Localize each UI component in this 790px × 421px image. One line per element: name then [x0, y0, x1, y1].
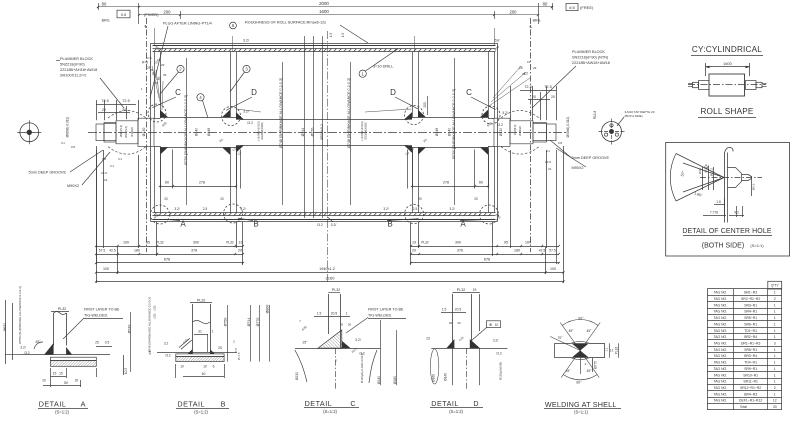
svg-text:PL32: PL32: [457, 288, 465, 292]
svg-text:PL32: PL32: [226, 241, 234, 245]
svg-text:7.5: 7.5: [234, 348, 238, 352]
svg-text:1.1: 1.1: [605, 347, 609, 351]
svg-text:(S=1:2): (S=1:2): [194, 410, 208, 415]
svg-text:Ø140: Ø140: [195, 128, 199, 136]
svg-text:15.7.5: 15.7.5: [237, 352, 241, 360]
svg-text:Ø160: Ø160: [432, 374, 436, 382]
svg-text:/3.2: /3.2: [496, 352, 502, 356]
svg-text:3.2/: 3.2/: [240, 207, 245, 211]
svg-text:TD1~R1: TD1~R1: [744, 329, 757, 333]
svg-text:42.5: 42.5: [539, 249, 546, 253]
svg-text:80: 80: [102, 2, 107, 7]
svg-text:℄: ℄: [529, 24, 533, 29]
svg-text:Ø500±0.2: Ø500±0.2: [320, 124, 324, 140]
svg-text:1: 1: [774, 380, 776, 384]
svg-text:Ø750: Ø750: [223, 318, 227, 327]
svg-text:50: 50: [64, 381, 68, 385]
svg-text:DR1~R1~R3: DR1~R1~R3: [741, 341, 761, 345]
svg-text:Ø90x(5.4): Ø90x(5.4): [119, 125, 123, 137]
svg-text:20: 20: [412, 249, 416, 253]
svg-text:SR2~R1~R2: SR2~R1~R2: [741, 297, 760, 301]
svg-text:21: 21: [104, 178, 108, 182]
svg-text:1.5: 1.5: [329, 33, 333, 38]
svg-text:DETAIL: DETAIL: [431, 399, 459, 408]
svg-text:Ø149: Ø149: [435, 128, 439, 136]
svg-text:TAG NO.: TAG NO.: [713, 373, 727, 377]
svg-text:℄: ℄: [144, 24, 148, 29]
svg-text:SR3~R1: SR3~R1: [744, 303, 757, 307]
svg-text:DETAIL: DETAIL: [305, 399, 333, 408]
svg-text:Ø748 [SHRINKAGE ALLOWANCE 0.2-: Ø748 [SHRINKAGE ALLOWANCE 0.2-0.3]: [347, 78, 351, 148]
svg-text:1: 1: [774, 322, 776, 326]
svg-text:C1: C1: [61, 141, 65, 145]
svg-text:1.5: 1.5: [341, 33, 345, 38]
svg-text:ROUGHNESS OF ROLL SURFACE:Rmax: ROUGHNESS OF ROLL SURFACE:Rmax6-12s: [245, 21, 326, 25]
svg-text:SR4~R1: SR4~R1: [744, 310, 757, 314]
svg-text:(BOTH SIDE): (BOTH SIDE): [702, 243, 744, 250]
svg-text:23: 23: [426, 337, 430, 341]
svg-text:20: 20: [42, 379, 46, 383]
svg-text:25: 25: [218, 346, 222, 350]
svg-text:3.2/: 3.2/: [331, 223, 337, 227]
svg-text:95: 95: [504, 241, 508, 245]
svg-text:BR1~R3: BR1~R3: [744, 291, 757, 295]
svg-text:(S=1:2): (S=1:2): [449, 409, 463, 414]
svg-text:SR10~R1: SR10~R1: [743, 373, 758, 377]
svg-text:SR100X11.2/≈2: SR100X11.2/≈2: [60, 74, 87, 78]
svg-text:Ø100x6: Ø100x6: [130, 127, 134, 137]
svg-text:29: 29: [533, 66, 537, 70]
svg-text:C1: C1: [118, 157, 122, 161]
svg-text:0.8: 0.8: [558, 141, 562, 145]
svg-text:25°: 25°: [303, 341, 309, 345]
svg-text:200: 200: [423, 102, 427, 108]
svg-text:ØSO(5.4): ØSO(5.4): [124, 126, 128, 138]
svg-text:1: 1: [346, 311, 348, 315]
svg-text:Ø750 [SHRINKAGE ALLOWANCE 0.2-: Ø750 [SHRINKAGE ALLOWANCE 0.2-0.3]: [184, 95, 188, 165]
svg-text:SN2218(d=90) (NTN): SN2218(d=90) (NTN): [572, 56, 609, 60]
svg-text:Ø744: Ø744: [247, 318, 251, 327]
svg-text:20: 20: [474, 197, 478, 201]
svg-text:1: 1: [774, 329, 776, 333]
svg-text:3.2/: 3.2/: [243, 39, 249, 43]
svg-text:12: 12: [610, 349, 614, 353]
svg-text:10: 10: [527, 60, 531, 64]
svg-text:Ø12.2: Ø12.2: [710, 168, 714, 177]
svg-text:(S=1:1): (S=1:1): [574, 410, 588, 415]
svg-text:TAG NO.: TAG NO.: [713, 335, 727, 339]
svg-text:Ø140: Ø140: [444, 373, 448, 381]
svg-text:20.5: 20.5: [455, 308, 462, 312]
svg-text:678: 678: [484, 258, 490, 262]
svg-text:SR5~R1: SR5~R1: [744, 316, 757, 320]
svg-text:20: 20: [457, 321, 461, 325]
svg-text:21: 21: [548, 167, 552, 171]
svg-text:25: 25: [519, 66, 523, 70]
svg-text:2: 2: [774, 297, 776, 301]
svg-text:(S=1:2): (S=1:2): [55, 410, 69, 415]
svg-text:1.8: 1.8: [716, 200, 721, 204]
svg-text:TD4~R1: TD4~R1: [744, 361, 757, 365]
svg-text:TIG-WELDED.: TIG-WELDED.: [368, 314, 392, 318]
svg-text:Ø630: Ø630: [3, 323, 7, 331]
svg-text:1600: 1600: [723, 62, 731, 66]
svg-text:3.2/: 3.2/: [502, 111, 508, 115]
svg-text:BR2~R4: BR2~R4: [744, 335, 757, 339]
svg-text:72.5: 72.5: [544, 85, 551, 89]
svg-text:Ø750 (SHRINKAGE ALLOWANCE 0.2-: Ø750 (SHRINKAGE ALLOWANCE 0.2-0.3]: [18, 286, 22, 343]
svg-text:2.5: 2.5: [203, 207, 208, 211]
svg-text:60: 60: [165, 181, 169, 185]
svg-text:5mm DEEP GROOVE: 5mm DEEP GROOVE: [29, 171, 67, 175]
svg-text:10: 10: [157, 58, 161, 62]
svg-text:90°: 90°: [578, 317, 584, 321]
svg-text:0.5: 0.5: [121, 12, 127, 17]
svg-text:5mm DEEP GROOVE: 5mm DEEP GROOVE: [572, 156, 610, 160]
svg-text:WELDING AT SHELL: WELDING AT SHELL: [545, 400, 617, 409]
svg-text:Ø18: Ø18: [698, 168, 702, 174]
svg-text:DETAIL: DETAIL: [39, 400, 67, 409]
svg-text:200: 200: [510, 10, 518, 15]
svg-text:20.5: 20.5: [331, 311, 338, 315]
svg-text:95: 95: [146, 241, 150, 245]
svg-text:20: 20: [220, 197, 224, 201]
svg-text:BRG.: BRG.: [102, 19, 111, 23]
svg-text:TAG NO.: TAG NO.: [713, 322, 727, 326]
svg-text:80: 80: [543, 2, 548, 7]
svg-text:100: 100: [550, 267, 556, 271]
svg-text:3.2/: 3.2/: [20, 346, 26, 350]
svg-text:(S=1:1): (S=1:1): [750, 243, 764, 248]
svg-text:/3.2: /3.2: [247, 121, 253, 125]
svg-text:70°: 70°: [558, 336, 564, 340]
svg-text:45°: 45°: [569, 329, 575, 333]
svg-text:Ø149: Ø149: [207, 128, 211, 136]
svg-text:15: 15: [59, 372, 63, 376]
svg-text:TAG NO.: TAG NO.: [713, 348, 727, 352]
svg-text:300: 300: [455, 241, 461, 245]
svg-text:3.2/: 3.2/: [383, 207, 388, 211]
svg-text:45°: 45°: [587, 329, 593, 333]
svg-text:Ø770: Ø770: [256, 318, 260, 327]
svg-text:72.5: 72.5: [122, 99, 129, 103]
svg-text:#.5: #.5: [569, 5, 575, 10]
svg-text:72.5: 72.5: [524, 85, 531, 89]
svg-text:Ø135µ6(±038): Ø135µ6(±038): [499, 362, 503, 380]
svg-text:C: C: [350, 399, 355, 408]
svg-text:10.8(5.4): 10.8(5.4): [513, 125, 517, 136]
svg-text:PL32: PL32: [421, 241, 429, 245]
svg-text:ROLL SHAPE: ROLL SHAPE: [700, 107, 753, 116]
svg-text:19: 19: [412, 241, 416, 245]
svg-text:20: 20: [164, 197, 168, 201]
svg-text:SR6~R1: SR6~R1: [744, 322, 757, 326]
svg-text:/3.2: /3.2: [317, 223, 323, 227]
svg-text:1: 1: [774, 310, 776, 314]
svg-text:3.1: 3.1: [110, 164, 114, 168]
svg-text:C: C: [175, 88, 181, 97]
svg-text:Total: Total: [740, 405, 747, 409]
svg-text:3=10 DRILL: 3=10 DRILL: [373, 65, 393, 69]
svg-text:0.8: 0.8: [102, 157, 106, 161]
svg-text:SR8~R1: SR8~R1: [744, 348, 757, 352]
svg-text:20: 20: [75, 379, 79, 383]
svg-text:BR3~R4: BR3~R4: [744, 354, 757, 358]
svg-text:20: 20: [150, 68, 154, 72]
svg-text:PL16: PL16: [615, 347, 619, 355]
svg-text:72.5: 72.5: [101, 99, 108, 103]
svg-text:0.8: 0.8: [71, 145, 75, 149]
svg-text:FIRST LAYER TO BE: FIRST LAYER TO BE: [84, 308, 120, 312]
svg-text:300: 300: [193, 241, 199, 245]
svg-text:Ø140: Ø140: [377, 376, 381, 384]
svg-text:PLUMMER BLOCK: PLUMMER BLOCK: [572, 50, 605, 54]
svg-text:1: 1: [774, 373, 776, 377]
svg-text:19: 19: [473, 288, 477, 292]
svg-text:25: 25: [95, 341, 99, 345]
svg-text:TAG NO.: TAG NO.: [713, 399, 727, 403]
svg-text:20: 20: [449, 321, 453, 325]
svg-text:D: D: [473, 399, 478, 408]
svg-text:PL32: PL32: [332, 288, 340, 292]
svg-text:DETAIL: DETAIL: [177, 400, 205, 409]
svg-text:180: 180: [134, 249, 140, 253]
svg-text:1: 1: [774, 392, 776, 396]
svg-text:1.5: 1.5: [442, 308, 447, 312]
svg-text:100: 100: [525, 241, 531, 245]
svg-text:1940±1.2: 1940±1.2: [319, 267, 335, 271]
svg-text:⊕: ⊕: [489, 323, 492, 327]
svg-text:42.5: 42.5: [109, 249, 116, 253]
svg-text:20: 20: [348, 323, 352, 327]
svg-text:TAG NO.: TAG NO.: [713, 380, 727, 384]
svg-text:10: 10: [203, 365, 207, 369]
svg-text:35: 35: [522, 72, 526, 76]
svg-text:22218B+AH18+AW18: 22218B+AH18+AW18: [60, 68, 97, 72]
svg-text:3.2/: 3.2/: [174, 207, 179, 211]
svg-text:1: 1: [212, 330, 214, 334]
svg-text:3.2/: 3.2/: [243, 110, 249, 114]
svg-text:35: 35: [163, 73, 167, 77]
svg-text:60: 60: [479, 181, 483, 185]
svg-text:Ø748 (SHRINKAGE ALLOWANCE 0.2-: Ø748 (SHRINKAGE ALLOWANCE 0.2-0.3]: [148, 297, 152, 352]
svg-text:TAG NO.: TAG NO.: [713, 341, 727, 345]
svg-text:20: 20: [551, 95, 555, 99]
svg-text:2: 2: [585, 362, 587, 366]
svg-text:/3.2: /3.2: [165, 354, 171, 358]
svg-text:180: 180: [514, 249, 520, 253]
svg-text:R12.8: R12.8: [593, 111, 597, 120]
svg-text:100: 100: [103, 267, 109, 271]
svg-text:3.2: 3.2: [164, 342, 169, 346]
svg-text:TAG NO.: TAG NO.: [713, 386, 727, 390]
svg-text:1: 1: [774, 361, 776, 365]
svg-text:TAG NO.: TAG NO.: [713, 329, 727, 333]
svg-text:Ø140: Ø140: [448, 128, 452, 136]
svg-text:PL32: PL32: [197, 298, 205, 302]
svg-text:22218B+AW18+AW18: 22218B+AW18+AW18: [572, 61, 610, 65]
svg-text:Ø180: Ø180: [393, 376, 397, 384]
svg-text:2: 2: [233, 340, 235, 344]
svg-text:1: 1: [774, 303, 776, 307]
svg-text:A: A: [81, 400, 86, 409]
svg-text:Ø90h6(-0.012): Ø90h6(-0.012): [566, 117, 570, 138]
svg-text:BR4~R3: BR4~R3: [744, 392, 757, 396]
svg-text:12: 12: [773, 399, 777, 403]
svg-text:2000: 2000: [319, 1, 329, 6]
svg-text:278: 278: [199, 181, 205, 185]
svg-text:2: 2: [335, 359, 337, 363]
svg-text:45°: 45°: [587, 369, 593, 373]
svg-text:45°: 45°: [566, 369, 572, 373]
svg-text:Ø770: Ø770: [311, 128, 315, 137]
svg-text:Ø6.3: Ø6.3: [752, 183, 756, 190]
svg-text:63/: 63/: [495, 39, 500, 43]
svg-text:Ø130: Ø130: [142, 128, 146, 137]
svg-text:BRG.: BRG.: [533, 19, 542, 23]
svg-text:Ø135µ6[±038]: Ø135µ6[±038]: [260, 122, 264, 139]
svg-text:(FREE): (FREE): [580, 5, 594, 10]
svg-text:(S=1:2): (S=1:2): [323, 409, 337, 414]
svg-text:20: 20: [122, 108, 126, 112]
svg-text:1: 1: [774, 316, 776, 320]
svg-text:7.776: 7.776: [710, 211, 718, 215]
svg-text:CY:CYLINDRICAL: CY:CYLINDRICAL: [692, 45, 762, 54]
svg-text:SR11~R1: SR11~R1: [743, 380, 758, 384]
svg-text:DEF1~R1~R12: DEF1~R1~R12: [739, 399, 762, 403]
svg-text:24.5: 24.5: [101, 171, 107, 175]
svg-text:40: 40: [202, 372, 206, 376]
svg-text:TIG-WELDED.: TIG-WELDED.: [84, 314, 108, 318]
svg-text:10.5: 10.5: [124, 368, 128, 374]
svg-text:Ø750 [SHRINKAGE ALLOWANCE 0.2-: Ø750 [SHRINKAGE ALLOWANCE 0.2-0.3]: [452, 89, 456, 159]
svg-text:TAG NO.: TAG NO.: [713, 310, 727, 314]
svg-text:SR12~R1~R2: SR12~R1~R2: [740, 386, 761, 390]
svg-text:A: A: [460, 220, 466, 229]
svg-text:SR9~R1: SR9~R1: [744, 367, 757, 371]
svg-text:60°: 60°: [576, 381, 582, 385]
svg-text:1: 1: [774, 348, 776, 352]
svg-text:A: A: [180, 220, 186, 229]
svg-text:1: 1: [774, 367, 776, 371]
svg-text:(BOTH SIDE): (BOTH SIDE): [625, 114, 643, 118]
svg-text:0.5: 0.5: [105, 341, 110, 345]
svg-text:(+0.040/+0.013): (+0.040/+0.013): [360, 121, 364, 140]
svg-text:2.5: 2.5: [413, 207, 418, 211]
svg-text:6: 6: [213, 365, 215, 369]
svg-text:3.2/: 3.2/: [493, 339, 499, 343]
svg-text:/3.2: /3.2: [497, 123, 503, 127]
svg-text:278: 278: [443, 181, 449, 185]
svg-text:20: 20: [102, 108, 106, 112]
svg-text:57.5: 57.5: [549, 249, 556, 253]
svg-text:2: 2: [774, 386, 776, 390]
svg-text:19: 19: [239, 241, 243, 245]
svg-text:B: B: [221, 400, 226, 409]
svg-text:C: C: [466, 88, 472, 97]
svg-text:Ø100x6: Ø100x6: [518, 126, 522, 136]
svg-text:100: 100: [123, 241, 129, 245]
svg-text:B: B: [253, 220, 258, 229]
svg-text:200: 200: [164, 10, 172, 15]
svg-text:20: 20: [238, 249, 242, 253]
svg-text:376: 376: [457, 249, 463, 253]
svg-text:TAG NO.: TAG NO.: [713, 354, 727, 358]
svg-text:33: 33: [773, 405, 777, 409]
svg-text:(35): (35): [153, 313, 157, 318]
svg-text:FIRST LAYER TO BE: FIRST LAYER TO BE: [368, 308, 404, 312]
svg-text:DETAIL OF CENTER HOLE: DETAIL OF CENTER HOLE: [682, 228, 771, 235]
svg-text:Ø800: Ø800: [266, 305, 270, 314]
svg-text:20: 20: [418, 197, 422, 201]
svg-text:TAG NO.: TAG NO.: [713, 392, 727, 396]
svg-text:10: 10: [495, 323, 499, 327]
svg-text:TAG NO.: TAG NO.: [713, 316, 727, 320]
svg-text:678: 678: [164, 258, 170, 262]
svg-text:3.2/: 3.2/: [355, 338, 361, 342]
svg-text:R=8: R=8: [142, 61, 148, 65]
svg-text:15: 15: [53, 372, 57, 376]
svg-text:Ø130: Ø130: [499, 128, 503, 136]
svg-text:B: B: [387, 220, 392, 229]
svg-text:1.5: 1.5: [317, 311, 322, 315]
svg-text:Ø130: Ø130: [295, 372, 299, 380]
svg-text:57.5: 57.5: [99, 249, 106, 253]
svg-text:24.5: 24.5: [545, 160, 551, 164]
svg-text:C1: C1: [546, 149, 550, 153]
svg-text:5NZ218(d=90): 5NZ218(d=90): [60, 63, 85, 67]
svg-text:TAG NO.: TAG NO.: [713, 361, 727, 365]
svg-text:0.5: 0.5: [148, 350, 152, 355]
svg-text:Ø80h6(-0.019): Ø80h6(-0.019): [65, 117, 69, 138]
svg-text:31: 31: [198, 330, 202, 334]
svg-text:TAG NO.: TAG NO.: [713, 291, 727, 295]
svg-text:(15): (15): [153, 305, 157, 310]
svg-text:1: 1: [774, 354, 776, 358]
svg-text:D: D: [251, 88, 257, 97]
svg-text:TAG NO.: TAG NO.: [713, 367, 727, 371]
svg-text:25: 25: [155, 81, 159, 85]
svg-text:Ø775: Ø775: [594, 361, 598, 369]
svg-text:10: 10: [180, 365, 184, 369]
svg-text:Ø749: Ø749: [127, 325, 131, 334]
svg-text:PLUG AFTER LINING-PT1/4: PLUG AFTER LINING-PT1/4: [163, 22, 212, 26]
svg-text:20: 20: [340, 323, 344, 327]
svg-text:(+0.040/+0.013): (+0.040/+0.013): [257, 121, 261, 140]
svg-text:PL32: PL32: [156, 241, 164, 245]
svg-text:Ø135µ6[±038]: Ø135µ6[±038]: [364, 122, 368, 139]
svg-text:PLUMMER BLOCK: PLUMMER BLOCK: [60, 57, 93, 61]
svg-text:PL32: PL32: [58, 307, 66, 311]
svg-text:3: 3: [774, 341, 776, 345]
svg-text:M90X2: M90X2: [67, 184, 79, 188]
svg-text:Ø135µ6(+0.040/+0.013): Ø135µ6(+0.040/+0.013): [360, 353, 364, 383]
svg-text:1600: 1600: [319, 9, 329, 14]
svg-text:378: 378: [191, 249, 197, 253]
svg-text:Q'TY: Q'TY: [771, 284, 780, 288]
svg-text:1: 1: [774, 335, 776, 339]
svg-text:D: D: [390, 88, 396, 97]
svg-text:(FIXED): (FIXED): [144, 12, 159, 17]
svg-text:/3.2: /3.2: [24, 351, 30, 355]
svg-text:3.2/: 3.2/: [449, 207, 454, 211]
svg-text:Ø748 [SHRINKAGE ALLOWANCE 0.2-: Ø748 [SHRINKAGE ALLOWANCE 0.2-0.3]: [279, 78, 283, 148]
svg-text:TAG NO.: TAG NO.: [713, 297, 727, 301]
svg-text:1: 1: [774, 291, 776, 295]
svg-text:Ø744: Ø744: [301, 128, 305, 137]
svg-text:K=8: K=8: [146, 56, 152, 60]
svg-text:29: 29: [161, 63, 165, 67]
